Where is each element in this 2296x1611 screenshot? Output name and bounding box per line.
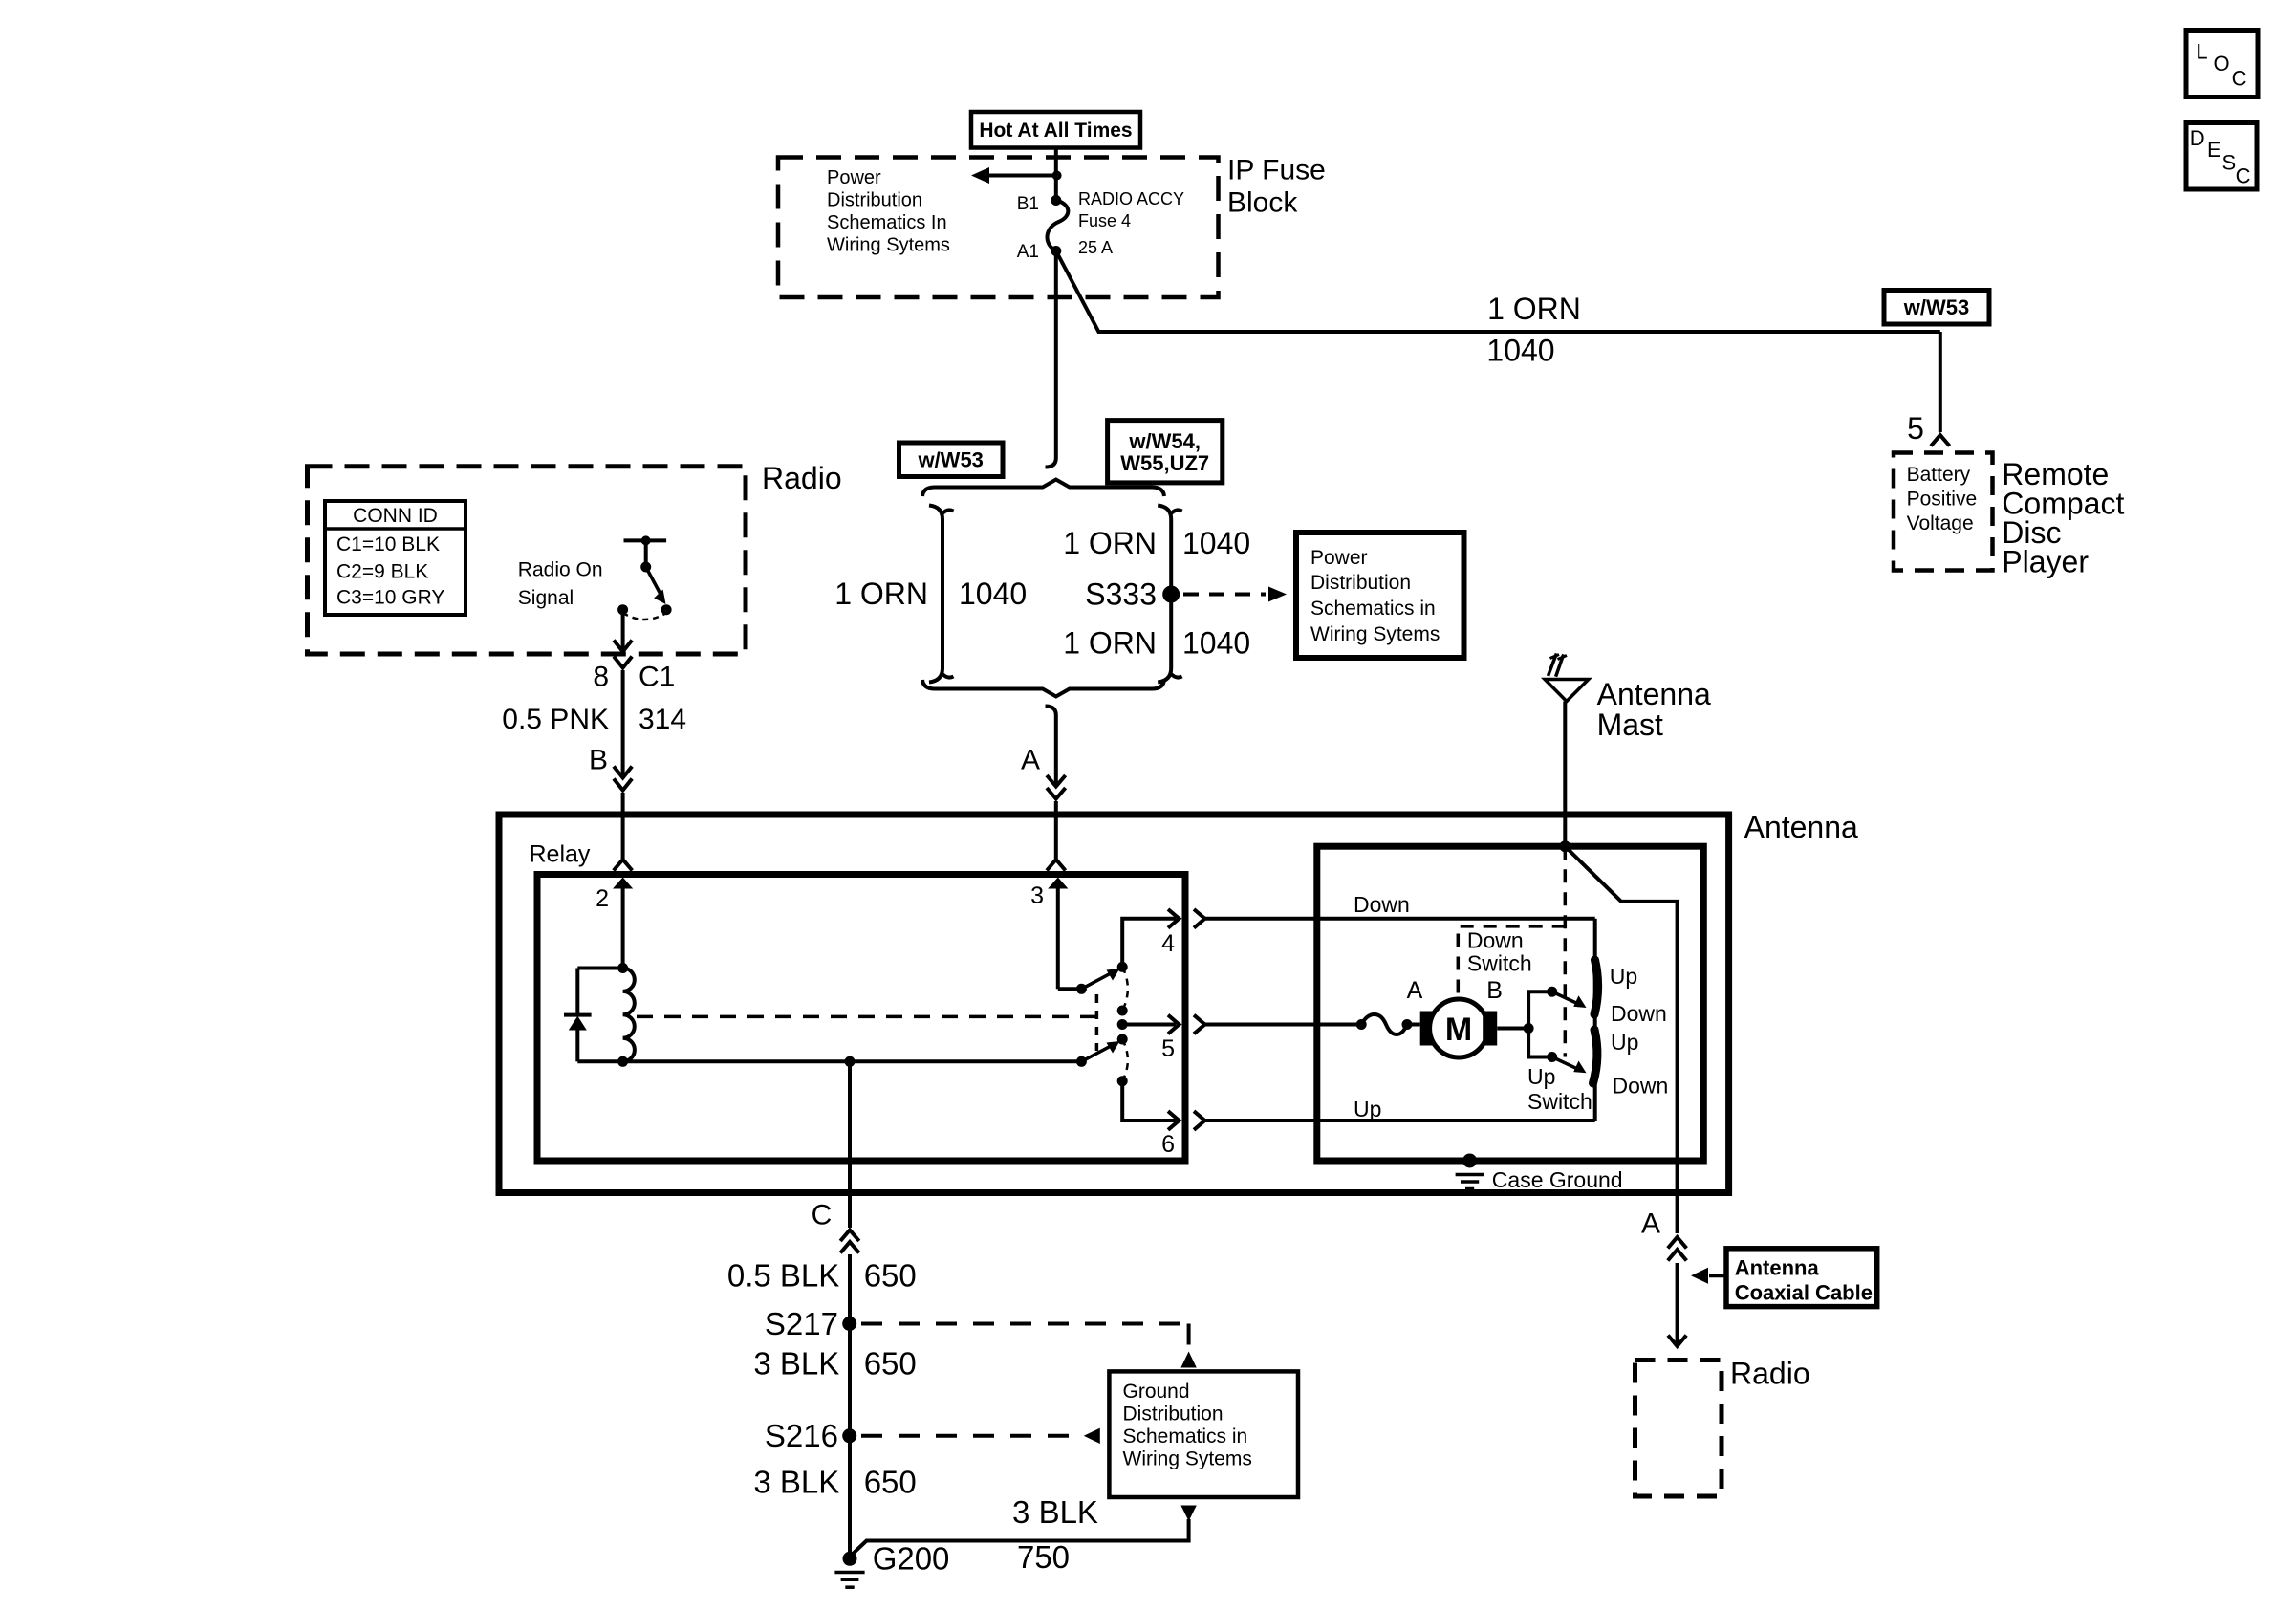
svg-text:2: 2 (596, 885, 609, 912)
svg-text:Distribution: Distribution (1123, 1404, 1224, 1426)
switch SW radio-on (624, 538, 667, 542)
svg-text:G200: G200 (873, 1541, 950, 1577)
wire 0.5 BLK 650 (848, 1254, 852, 1555)
svg-text:3 BLK: 3 BLK (753, 1465, 839, 1500)
svg-text:A: A (1021, 745, 1040, 776)
svg-text:CONN ID: CONN ID (353, 505, 438, 527)
svg-text:Case Ground: Case Ground (1492, 1167, 1623, 1192)
SECTION: braces (834, 480, 1463, 871)
svg-text:Schematics in: Schematics in (1123, 1426, 1248, 1448)
contact sector upper (1594, 960, 1598, 1014)
wire Down (pin 4 to up-down switch) (1194, 909, 1205, 928)
diode CR1 across coil (577, 967, 622, 970)
motor M1 (1420, 1012, 1435, 1046)
svg-text:Distribution: Distribution (827, 190, 922, 211)
contact sector lower (1593, 1030, 1597, 1083)
note Ground Distribution Schematics in Wiring Sytems box (1109, 1371, 1298, 1497)
wire motor B to switch arms (1497, 1027, 1528, 1031)
svg-text:M: M (1445, 1012, 1472, 1048)
svg-text:C1=10 BLK: C1=10 BLK (336, 533, 440, 555)
svg-text:Player: Player (2002, 545, 2089, 579)
svg-text:Wiring Sytems: Wiring Sytems (1123, 1448, 1252, 1470)
svg-text:Antenna: Antenna (1735, 1256, 1820, 1280)
connector chevrons A (1047, 775, 1066, 787)
note Power Distribution Schematics in Wiring Sytems box (1296, 533, 1464, 658)
relay contact points (1117, 962, 1128, 972)
svg-text:w/W53: w/W53 (917, 448, 983, 472)
svg-text:Block: Block (1227, 187, 1298, 219)
svg-text:A: A (1641, 1208, 1660, 1240)
wire 3 BLK 750 from ground distribution to G200 (1180, 1506, 1196, 1522)
IP Fuse Block dashed boundary (778, 158, 1219, 298)
svg-text:Relay: Relay (530, 841, 591, 868)
SECTION: bottom right (1635, 1208, 1877, 1497)
svg-text:5: 5 (1907, 411, 1924, 446)
component Radio dashed box (308, 467, 747, 654)
svg-text:Switch: Switch (1527, 1089, 1592, 1114)
connector chevron at radio box edge (614, 657, 632, 668)
svg-text:Up: Up (1354, 1097, 1381, 1121)
svg-text:3: 3 (1030, 882, 1044, 909)
svg-text:Signal: Signal (518, 587, 574, 609)
relay contact arm lower (1081, 1046, 1112, 1062)
relay armature dashed link (637, 1015, 1096, 1019)
up-down switch frame right edge (1593, 919, 1597, 1121)
svg-text:D: D (2190, 126, 2205, 150)
wire branch arrow to power distribution (988, 174, 1057, 178)
connector chevrons B (614, 779, 632, 791)
connector chevrons C (840, 1230, 859, 1242)
harness tag w/W53 (left) (899, 443, 1004, 477)
svg-text:Schematics In: Schematics In (827, 212, 947, 233)
connector chevrons A coax (1668, 1237, 1687, 1249)
svg-text:5: 5 (1161, 1035, 1175, 1062)
svg-text:Down: Down (1613, 1074, 1669, 1099)
svg-text:1040: 1040 (959, 577, 1027, 611)
node Hot At All Times label box (971, 112, 1140, 148)
svg-text:4: 4 (1161, 930, 1175, 957)
pin 6 wire inside relay (1122, 1081, 1176, 1121)
tag LOC box (2186, 31, 2258, 98)
svg-text:1040: 1040 (1182, 626, 1250, 661)
svg-text:Switch: Switch (1467, 951, 1532, 976)
svg-text:Positive: Positive (1907, 489, 1978, 511)
SECTION: bottom ground (727, 1061, 1298, 1587)
svg-text:1040: 1040 (1486, 334, 1554, 368)
svg-text:w/W54,: w/W54, (1128, 429, 1201, 453)
wire coil common to contacts and pin C (623, 1059, 1082, 1063)
table CONN ID (325, 501, 466, 615)
node junction antenna mast (1559, 840, 1570, 852)
wire motor feed (pin 5) (1194, 1015, 1205, 1034)
svg-text:S: S (2222, 151, 2237, 175)
pin 5 wire inside relay (1122, 1023, 1176, 1027)
svg-text:Hot At All Times: Hot At All Times (979, 120, 1132, 142)
svg-text:Fuse 4: Fuse 4 (1078, 211, 1131, 230)
node terminal B1 (1051, 195, 1061, 206)
svg-text:1 ORN: 1 ORN (834, 577, 928, 611)
note Antenna Coaxial Cable box (1726, 1249, 1877, 1307)
svg-text:Mast: Mast (1597, 708, 1663, 742)
wire from Hot At All Times to fuse B1 (1054, 148, 1058, 201)
svg-text:Power: Power (827, 167, 881, 188)
svg-text:Ground: Ground (1123, 1381, 1190, 1403)
flexible lead into motor (1356, 1019, 1367, 1030)
svg-text:S216: S216 (765, 1418, 838, 1453)
svg-text:Coaxial Cable: Coaxial Cable (1735, 1281, 1873, 1305)
svg-text:L: L (2196, 40, 2207, 64)
svg-text:C1: C1 (639, 662, 675, 693)
svg-text:Schematics in: Schematics in (1310, 598, 1436, 620)
SECTION: top fuse block (778, 112, 1940, 468)
component Relay box (537, 875, 1185, 1162)
wire 0.5 PNK 314 (621, 670, 625, 776)
wire down to remote CD player (1939, 332, 1942, 432)
svg-text:A: A (1407, 977, 1423, 1004)
svg-text:0.5 BLK: 0.5 BLK (727, 1258, 839, 1294)
harness tag w/W54 W55 UZ7 (1108, 421, 1223, 483)
svg-text:650: 650 (864, 1346, 917, 1382)
harness option brace right w/W54 (1158, 506, 1171, 683)
svg-text:Down: Down (1354, 892, 1410, 917)
node splice brace bottom (922, 680, 1164, 697)
svg-text:W55,UZ7: W55,UZ7 (1120, 451, 1209, 475)
svg-text:750: 750 (1017, 1539, 1070, 1575)
svg-text:Wiring Sytems: Wiring Sytems (827, 235, 950, 256)
svg-text:0.5 PNK: 0.5 PNK (502, 704, 609, 735)
relay coil K1 (617, 963, 628, 973)
svg-text:C: C (2232, 67, 2247, 91)
svg-text:Wiring Sytems: Wiring Sytems (1310, 623, 1440, 645)
wire dashed reference from S333 (1183, 593, 1266, 597)
svg-text:Up: Up (1611, 1030, 1638, 1055)
wire radio-on signal down to box edge (621, 610, 625, 651)
svg-text:Power: Power (1310, 547, 1368, 569)
svg-text:650: 650 (864, 1465, 917, 1500)
svg-text:6: 6 (1161, 1131, 1175, 1158)
svg-text:1040: 1040 (1182, 526, 1250, 560)
svg-text:25 A: 25 A (1078, 238, 1113, 257)
svg-text:1 ORN: 1 ORN (1063, 626, 1157, 661)
wire into antenna box pin 2 (621, 793, 625, 859)
wire dashed S217 to ground distribution (861, 1322, 1189, 1326)
pin 3 entry arrow (1048, 878, 1068, 889)
SECTION: top right (899, 31, 2259, 579)
svg-text:O: O (2213, 52, 2229, 76)
svg-text:S217: S217 (765, 1306, 838, 1341)
svg-text:Down: Down (1611, 1001, 1667, 1026)
component motor assembly box (1317, 846, 1704, 1161)
svg-text:Antenna: Antenna (1597, 677, 1711, 711)
wire pin C down from relay (848, 1061, 852, 1228)
down switch arm (1528, 991, 1552, 1028)
svg-text:C: C (2236, 164, 2251, 188)
svg-text:IP Fuse: IP Fuse (1227, 155, 1326, 186)
svg-text:Down: Down (1467, 928, 1524, 953)
svg-text:Radio On: Radio On (518, 559, 603, 581)
harness tag w/W53 (right) (1884, 291, 1989, 325)
tag DESC box (2186, 123, 2257, 190)
component Battery Positive Voltage dashed box (1894, 453, 1993, 571)
node terminal A1 (1051, 246, 1061, 256)
svg-text:Up: Up (1610, 964, 1637, 989)
dashed link mast to switches (1564, 846, 1568, 1056)
svg-text:C: C (812, 1200, 833, 1231)
svg-text:C2=9 BLK: C2=9 BLK (336, 561, 428, 583)
wire mast junction to coax output (1565, 846, 1677, 1233)
svg-text:Antenna: Antenna (1744, 810, 1858, 844)
node junction on feed wire (1052, 171, 1062, 181)
wire from braces down to antenna connector A (1046, 707, 1056, 716)
relay contact arm upper from pin 3 (1058, 987, 1082, 991)
svg-text:650: 650 (864, 1258, 917, 1294)
svg-text:S333: S333 (1085, 577, 1157, 612)
arrow from coax label to wire (1709, 1274, 1726, 1277)
fuse F4 RADIO ACCY 25A (1047, 201, 1068, 251)
splice S217 (842, 1317, 856, 1331)
svg-text:RADIO ACCY: RADIO ACCY (1078, 189, 1184, 208)
svg-text:Voltage: Voltage (1907, 512, 1974, 534)
svg-text:Battery: Battery (1907, 464, 1971, 486)
svg-text:Radio: Radio (762, 461, 842, 495)
svg-text:Up: Up (1527, 1064, 1555, 1089)
wire Up (pin 6 to up-down switch) (1194, 1111, 1205, 1130)
pin 4 wire inside relay (1122, 919, 1176, 968)
svg-text:B: B (1486, 977, 1503, 1004)
antenna mast symbol (1563, 702, 1567, 847)
component Antenna outer box (499, 815, 1729, 1193)
svg-text:Radio: Radio (1730, 1357, 1810, 1391)
svg-text:Distribution: Distribution (1310, 572, 1411, 594)
pin 2 entry arrow (613, 878, 633, 889)
svg-text:3 BLK: 3 BLK (1012, 1494, 1098, 1530)
ground case ground (1462, 1154, 1477, 1168)
svg-text:B: B (589, 745, 608, 776)
svg-text:1 ORN: 1 ORN (1487, 292, 1581, 326)
svg-text:C3=10 GRY: C3=10 GRY (336, 587, 444, 609)
component Radio (bottom) dashed box (1635, 1361, 1722, 1497)
svg-text:B1: B1 (1017, 194, 1039, 214)
Down Switch dashed box and label (1458, 926, 1565, 993)
svg-text:3 BLK: 3 BLK (753, 1346, 839, 1382)
ground G200 (843, 1552, 857, 1566)
svg-text:1 ORN: 1 ORN (1063, 526, 1157, 560)
wire dashed S216 to ground distribution (861, 1434, 1078, 1438)
SECTION: radio box (308, 461, 842, 871)
wire 1 ORN 1040 to remote CD player (1056, 251, 1940, 333)
splice S216 (842, 1428, 856, 1443)
wire from A1 down to splice braces (1054, 251, 1058, 459)
SECTION: antenna assembly (499, 654, 1858, 1234)
svg-text:314: 314 (639, 704, 686, 735)
node splice brace top (922, 480, 1164, 497)
up switch arm (1528, 1029, 1552, 1057)
wire into antenna box pin 3 (1054, 801, 1058, 859)
svg-text:A1: A1 (1017, 242, 1039, 262)
svg-text:8: 8 (593, 662, 609, 693)
svg-text:E: E (2207, 138, 2221, 162)
svg-text:w/W53: w/W53 (1903, 295, 1969, 319)
wire coax down to radio (1676, 1263, 1679, 1344)
harness option brace left w/W53 (929, 506, 942, 683)
